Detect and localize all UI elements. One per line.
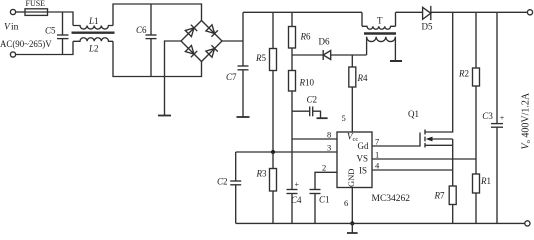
bridge diode bottom-left <box>185 45 197 57</box>
svg-text:R2: R2 <box>458 69 469 79</box>
output terminal top <box>527 10 532 15</box>
svg-text:R7: R7 <box>434 191 446 201</box>
resistor R1 <box>473 174 480 193</box>
svg-text:R5: R5 <box>255 53 267 63</box>
choke core <box>72 32 115 34</box>
svg-text:5: 5 <box>342 113 346 123</box>
svg-text:6: 6 <box>344 198 348 208</box>
input terminal bottom <box>10 52 15 57</box>
pin 2 wire <box>315 172 337 189</box>
pin 5 wire <box>351 87 353 132</box>
svg-text:D6: D6 <box>319 37 330 47</box>
wire L2 to bottom AC rail <box>113 41 202 76</box>
svg-text:R4: R4 <box>357 73 369 83</box>
capacitor C2 right <box>292 110 310 112</box>
resistor R7 <box>449 186 456 205</box>
capacitor C3 <box>496 12 498 123</box>
resistor R2 <box>475 12 477 68</box>
svg-text:C2: C2 <box>217 177 228 187</box>
svg-text:R1: R1 <box>480 176 491 186</box>
resistor R10 <box>291 55 293 71</box>
svg-text:Q1: Q1 <box>408 109 419 119</box>
svg-text:L2: L2 <box>88 44 99 54</box>
svg-text:R6: R6 <box>300 32 312 42</box>
wire C7 node / top rail <box>242 12 244 66</box>
transistor Q1 drain <box>425 12 453 132</box>
pin 7 wire <box>372 145 420 147</box>
transistor Q1 gate bar <box>419 133 421 147</box>
svg-text:C2: C2 <box>307 95 318 105</box>
svg-text:C3: C3 <box>482 111 493 121</box>
diode D5 <box>423 7 431 19</box>
svg-text:4: 4 <box>375 161 380 171</box>
wire fuse to L1 <box>48 12 74 26</box>
pin 1 wire <box>372 158 476 160</box>
wire L1 to top rail <box>113 4 202 26</box>
svg-text:C6: C6 <box>136 25 147 35</box>
svg-text:MC34262: MC34262 <box>372 194 411 204</box>
bridge diode top-right <box>206 25 218 37</box>
wire bottom input to L2 <box>16 41 73 54</box>
capacitor C4 <box>291 139 293 190</box>
inductor L1 <box>73 26 113 30</box>
svg-text:D5: D5 <box>422 22 433 32</box>
transistor Q1 body arrow <box>426 137 433 142</box>
ground C2 <box>317 117 328 119</box>
svg-text:C5: C5 <box>45 26 56 36</box>
inductor L2 <box>73 38 113 42</box>
svg-text:7: 7 <box>375 137 379 147</box>
wire D6 line <box>292 54 323 56</box>
svg-text:C7: C7 <box>226 72 237 82</box>
svg-text:AC(90~265)V: AC(90~265)V <box>0 39 52 49</box>
svg-text:3: 3 <box>327 143 331 153</box>
svg-text:C4: C4 <box>291 195 302 205</box>
resistor R5 <box>272 12 274 48</box>
capacitor C7 <box>238 65 249 67</box>
output terminal bottom <box>525 221 530 226</box>
pin 4 wire <box>372 169 453 171</box>
transformer T secondary <box>367 37 396 42</box>
pin 8 wire <box>292 138 337 140</box>
svg-text:1: 1 <box>375 150 379 160</box>
transformer core <box>364 32 396 35</box>
bottom rail <box>236 222 525 224</box>
svg-text:+: + <box>295 180 300 189</box>
bridge diode top-left <box>185 25 197 37</box>
capacitor C6 <box>150 4 152 35</box>
pin 6 wire <box>351 187 353 223</box>
wire bridge plus to C7 node <box>222 40 243 42</box>
node pin3 junction <box>271 150 275 154</box>
ground C7 <box>237 116 250 118</box>
svg-text:L1: L1 <box>88 16 99 26</box>
svg-text:in: in <box>11 23 19 33</box>
bridge diode bottom-right <box>206 45 218 57</box>
ground secondary <box>390 60 402 62</box>
ground bridge <box>158 115 171 117</box>
transformer T primary <box>361 12 363 26</box>
svg-text:2: 2 <box>322 163 326 173</box>
transistor Q1 channel segments <box>424 130 426 135</box>
top rail <box>243 11 362 13</box>
fuse FUSE <box>25 9 48 16</box>
svg-text:+: + <box>500 114 505 123</box>
svg-text:Gd: Gd <box>358 141 369 151</box>
capacitor C2 left <box>235 152 237 181</box>
pin 3 wire <box>236 151 337 153</box>
bridge rectifier diamond <box>181 21 222 62</box>
transistor Q1 source <box>425 144 453 146</box>
capacitor C1 <box>310 189 321 191</box>
svg-text:Vo 400V/1.2A: Vo 400V/1.2A <box>521 92 533 149</box>
svg-text:GND: GND <box>346 169 356 187</box>
svg-text:T: T <box>377 16 383 26</box>
svg-text:VS: VS <box>357 154 369 164</box>
resistor R6 <box>291 12 293 26</box>
wire top input to fuse <box>16 11 25 13</box>
resistor R3 <box>270 169 277 192</box>
diode D6 <box>323 51 331 60</box>
wire bridge minus to ground <box>165 41 182 116</box>
node pin6 junction <box>350 221 354 225</box>
svg-text:8: 8 <box>327 130 331 140</box>
svg-text:IS: IS <box>359 166 367 176</box>
svg-text:C1: C1 <box>319 195 330 205</box>
ground pin6 <box>351 223 353 233</box>
input terminal top <box>10 9 15 14</box>
resistor R4 <box>351 55 353 67</box>
svg-text:R10: R10 <box>299 78 315 88</box>
IC U1 MC34262 <box>337 132 372 188</box>
svg-text:V: V <box>4 23 11 33</box>
capacitor C5 <box>62 12 64 35</box>
svg-text:FUSE: FUSE <box>26 0 46 8</box>
svg-text:R3: R3 <box>256 169 268 179</box>
